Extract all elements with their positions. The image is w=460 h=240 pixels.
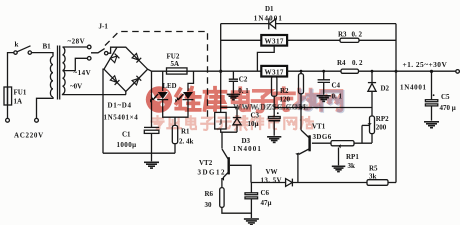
- svg-text:C2: C2: [239, 75, 248, 83]
- svg-text:~28V: ~28V: [68, 38, 86, 46]
- svg-text:3DG12: 3DG12: [198, 168, 227, 176]
- svg-text:R4: R4: [337, 59, 346, 67]
- svg-text:3k: 3k: [348, 162, 356, 170]
- svg-text:R3: R3: [338, 31, 347, 39]
- svg-text:C5: C5: [441, 93, 450, 101]
- svg-text:0. 2: 0. 2: [352, 31, 363, 39]
- svg-text:D2: D2: [381, 85, 390, 93]
- svg-text:C6: C6: [261, 189, 270, 197]
- svg-text:2. 4k: 2. 4k: [179, 138, 194, 146]
- svg-text:W317: W317: [265, 69, 284, 77]
- svg-text:3k: 3k: [369, 172, 377, 180]
- svg-text:1N5401×4: 1N5401×4: [104, 114, 139, 122]
- svg-text:B1: B1: [43, 43, 52, 51]
- svg-text:R5: R5: [369, 165, 378, 173]
- svg-text:0. 2: 0. 2: [352, 59, 363, 67]
- svg-text:470 μ: 470 μ: [440, 104, 456, 112]
- svg-text:1N4001: 1N4001: [254, 15, 283, 23]
- svg-text:+1. 25~+30V: +1. 25~+30V: [403, 60, 448, 69]
- svg-text:R1: R1: [181, 128, 190, 136]
- svg-text:3DG6: 3DG6: [313, 133, 332, 141]
- svg-text:WWW.DZSC.COM: WWW.DZSC.COM: [236, 103, 309, 112]
- svg-text:D1: D1: [265, 5, 274, 13]
- svg-text:R6: R6: [205, 190, 214, 198]
- svg-text:1N4001: 1N4001: [400, 84, 427, 92]
- svg-text:RP1: RP1: [346, 153, 359, 161]
- svg-text:13. 5V: 13. 5V: [261, 176, 282, 184]
- svg-text:FU1: FU1: [14, 89, 27, 97]
- svg-text:47μ: 47μ: [261, 199, 272, 207]
- svg-text:D1~D4: D1~D4: [108, 102, 132, 110]
- svg-text:30: 30: [205, 201, 213, 209]
- svg-text:VT2: VT2: [199, 159, 213, 167]
- svg-text:D3: D3: [242, 137, 251, 145]
- svg-text:1000μ: 1000μ: [117, 141, 137, 149]
- svg-text:J-1: J-1: [99, 23, 109, 31]
- svg-text:RP2: RP2: [376, 115, 389, 123]
- svg-text:VT1: VT1: [312, 123, 326, 131]
- svg-text:C1: C1: [122, 131, 131, 139]
- svg-text:k: k: [15, 41, 19, 49]
- svg-text:200: 200: [376, 124, 387, 132]
- svg-text:1A: 1A: [14, 98, 23, 106]
- svg-text:~14V: ~14V: [74, 69, 92, 77]
- svg-text:C4: C4: [332, 82, 341, 90]
- svg-text:1N4001: 1N4001: [233, 145, 262, 153]
- svg-text:5A: 5A: [171, 60, 180, 68]
- svg-text:~0V: ~0V: [70, 83, 82, 91]
- svg-text:VW: VW: [266, 168, 278, 176]
- svg-text:W317: W317: [265, 38, 284, 46]
- svg-text:AC220V: AC220V: [14, 131, 44, 139]
